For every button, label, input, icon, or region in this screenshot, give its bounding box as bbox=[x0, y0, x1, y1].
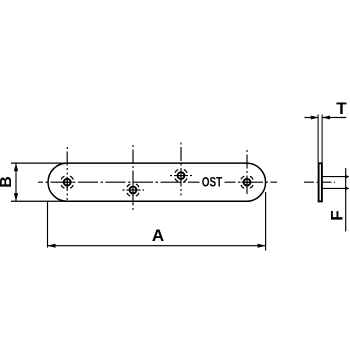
svg-text:B: B bbox=[0, 176, 15, 188]
svg-text:T: T bbox=[336, 99, 347, 118]
svg-text:A: A bbox=[152, 226, 164, 245]
svg-text:OST: OST bbox=[202, 173, 223, 189]
svg-text:F: F bbox=[328, 210, 347, 220]
